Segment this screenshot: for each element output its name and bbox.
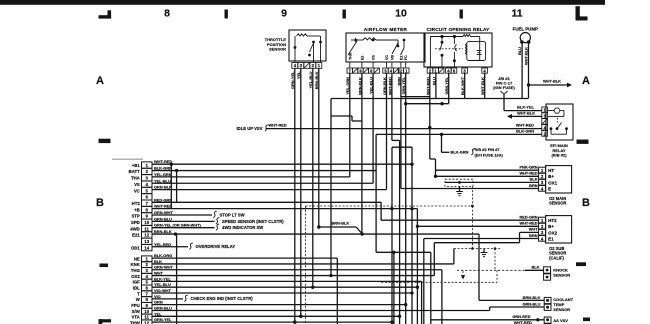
svg-text:OX2: OX2 [131,274,140,279]
svg-text:CHECK ENG IND (INST CLSTR): CHECK ENG IND (INST CLSTR) [191,296,254,301]
svg-text:HT2: HT2 [132,201,141,206]
svg-text:E2: E2 [360,56,364,60]
svg-text:B+: B+ [548,174,554,179]
svg-text:SENSOR: SENSOR [269,47,286,52]
svg-text:FC: FC [404,55,408,60]
svg-text:(R/B #2): (R/B #2) [551,153,567,158]
svg-text:BLK-GRN: BLK-GRN [154,166,172,171]
svg-text:SENSOR: SENSOR [553,273,570,278]
svg-text:BLK: BLK [532,265,540,270]
svg-text:NE: NE [134,256,140,261]
svg-text:IDLE UP VSV: IDLE UP VSV [237,126,263,131]
svg-text:13: 13 [144,239,149,244]
svg-text:THA: THA [348,52,352,60]
svg-text:VIO-WHT: VIO-WHT [154,288,171,293]
svg-text:RED-GRN: RED-GRN [519,215,537,220]
svg-text:11: 11 [144,226,149,231]
svg-text:OD1: OD1 [131,245,140,250]
svg-text:WHT-RED: WHT-RED [519,171,537,176]
svg-text:WHT-RED: WHT-RED [154,159,172,164]
svg-text:B: B [96,197,104,209]
svg-text:STOP LT SW: STOP LT SW [220,212,245,217]
svg-text:GRN-RED: GRN-RED [512,314,530,319]
svg-text:HT2: HT2 [548,218,557,223]
svg-text:WHT-RED: WHT-RED [516,123,534,128]
svg-text:BRN-BLK: BRN-BLK [523,295,541,300]
svg-text:BLK: BLK [154,259,162,264]
svg-text:S/W: S/W [132,309,141,314]
svg-text:OX1: OX1 [548,180,558,185]
svg-text:WHT: WHT [529,227,538,232]
svg-text:(EFI FUSE 16A): (EFI FUSE 16A) [475,152,504,157]
svg-text:GRN-WHT: GRN-WHT [154,265,173,270]
svg-text:E21: E21 [132,233,140,238]
svg-text:IDL: IDL [133,286,140,291]
svg-text:THG: THG [131,268,141,273]
svg-text:10: 10 [144,220,149,225]
svg-text:BRN: BRN [529,233,538,238]
svg-text:SENSOR: SENSOR [553,307,570,312]
svg-text:9: 9 [281,8,287,20]
svg-text:YEL: YEL [154,311,162,316]
svg-text:A: A [96,75,104,87]
svg-text:GRN-YEL (OR GRN-WHT): GRN-YEL (OR GRN-WHT) [154,223,202,228]
svg-text:VTA: VTA [132,315,140,320]
svg-text:BLK-YEL: BLK-YEL [154,276,171,281]
svg-text:RED-GRN: RED-GRN [154,197,172,202]
svg-text:CIRCUIT OPENING RELAY: CIRCUIT OPENING RELAY [427,27,491,32]
svg-text:BLK-YEL: BLK-YEL [517,105,534,110]
svg-text:8: 8 [164,8,170,20]
svg-text:BRN: BRN [529,183,538,188]
svg-text:YEL-BLU: YEL-BLU [154,178,171,183]
svg-text:PNK-GRN: PNK-GRN [519,165,537,170]
svg-text:IGF: IGF [133,280,141,285]
svg-text:BLK: BLK [530,177,538,182]
svg-text:A: A [582,75,590,87]
svg-text:10: 10 [144,309,149,314]
svg-text:14: 14 [144,245,149,250]
svg-text:WHT-BLK: WHT-BLK [543,78,561,83]
svg-text:+B1: +B1 [132,163,141,168]
svg-text:BLU: BLU [517,47,522,55]
svg-text:VB: VB [390,55,394,60]
svg-text:AS VSV: AS VSV [553,318,568,323]
svg-text:(IGN FUSE): (IGN FUSE) [493,85,515,90]
svg-text:THW: THW [130,320,141,324]
svg-text:4WD INDICATOR SW: 4WD INDICATOR SW [222,225,263,230]
svg-text:YEL-RED: YEL-RED [154,242,171,247]
svg-text:GRN-BLU: GRN-BLU [154,305,172,310]
svg-text:SPEED SENSOR (INST CLSTR): SPEED SENSOR (INST CLSTR) [222,219,284,224]
svg-text:12: 12 [144,320,149,324]
svg-text:STP: STP [131,214,139,219]
svg-text:WHT-RED: WHT-RED [514,320,532,324]
svg-text:GRN-BLU: GRN-BLU [522,301,540,306]
svg-text:OX2: OX2 [548,230,558,235]
svg-text:YEL-GRN: YEL-GRN [154,172,172,177]
svg-text:4WD: 4WD [130,226,140,231]
svg-text:BLK-GRN: BLK-GRN [516,128,534,133]
svg-text:E1: E1 [399,56,403,60]
svg-text:(CALIF): (CALIF) [549,255,564,260]
svg-text:12: 12 [144,233,149,238]
svg-text:BATT: BATT [129,169,141,174]
svg-text:T: T [137,291,140,296]
svg-text:10: 10 [395,8,407,20]
svg-text:GRN-BLU: GRN-BLU [154,216,172,221]
svg-text:BLK-GRN: BLK-GRN [451,150,469,155]
svg-text:BLK-ORG: BLK-ORG [154,253,172,258]
svg-text:WHT-RED: WHT-RED [519,221,537,226]
svg-text:AIRFLOW METER: AIRFLOW METER [364,27,408,32]
svg-text:FUEL PUMP: FUEL PUMP [513,27,538,32]
svg-text:YEL-BLU: YEL-BLU [154,282,171,287]
svg-text:WHT: WHT [154,271,163,276]
svg-text:GRN-WHT: GRN-WHT [154,210,173,215]
svg-text:HT: HT [548,168,554,173]
svg-text:FPU: FPU [131,303,140,308]
svg-text:E1: E1 [548,236,554,241]
svg-text:THA: THA [131,176,140,181]
svg-text:SPD: SPD [131,220,140,225]
svg-text:BRN-BLK: BRN-BLK [332,221,350,226]
svg-text:11: 11 [511,8,522,20]
svg-text:KNK: KNK [130,262,140,267]
svg-text:WHT-BLK: WHT-BLK [524,47,529,65]
svg-text:WHT-RED: WHT-RED [269,123,287,128]
svg-text:GRN-BLK: GRN-BLK [154,185,172,190]
svg-text:GRN: GRN [154,300,163,305]
svg-text:B+: B+ [548,224,554,229]
svg-text:VC: VC [134,188,140,193]
svg-text:+B: +B [134,207,140,212]
svg-text:WHT-RED: WHT-RED [154,204,172,209]
svg-text:B: B [582,197,590,209]
svg-text:BRN-BLK: BRN-BLK [154,229,172,234]
svg-text:SENSOR: SENSOR [549,201,566,206]
svg-text:OVERDRIVE RELAY: OVERDRIVE RELAY [196,244,236,249]
svg-text:VS: VS [134,182,140,187]
svg-text:GRN-YEL: GRN-YEL [154,317,172,322]
svg-text:VC: VC [385,55,389,60]
svg-text:VS: VS [372,55,376,60]
svg-text:VIO: VIO [154,294,161,299]
svg-text:E: E [548,186,551,191]
svg-text:11: 11 [144,315,149,320]
svg-text:WHT-BLK: WHT-BLK [517,110,535,115]
